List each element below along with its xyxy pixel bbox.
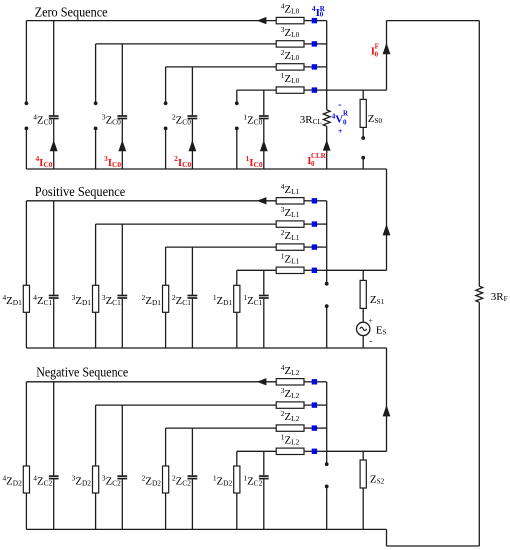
- terminal square 4ZL1: [312, 198, 317, 203]
- resistor 3ZL1: [276, 205, 304, 228]
- switch open contact dots junction seq1: [325, 282, 329, 308]
- wire negative bus to bottom: [386, 529, 388, 546]
- wire row 1ZL2 resistor-to-square: [304, 450, 312, 452]
- arrow capacitor current 4IC0: [50, 140, 58, 151]
- wire row 3ZL2 resistor-to-square: [304, 404, 312, 406]
- resistor 3ZL2: [276, 386, 304, 409]
- wire row 2ZL2 y=428.1: [166, 427, 277, 429]
- wire row 1ZL2 square-to-junction: [317, 450, 327, 452]
- wire row 3ZL0 square-to-junction: [317, 43, 327, 45]
- wire row 1ZL1 resistor-to-square: [304, 269, 312, 271]
- wire junction vertical lower seq2: [326, 486, 328, 529]
- resistor 1ZL0: [276, 71, 304, 94]
- wire cap leg 4ZC0 lower: [53, 119, 55, 169]
- wire resistor leg 1ZD1 lower: [236, 312, 238, 348]
- wire cap leg 4ZC2 upper: [53, 382, 55, 476]
- terminal square 3ZL1: [312, 221, 317, 226]
- wire row 3ZL2 square-to-junction: [317, 404, 327, 406]
- resistor 1ZL2: [276, 432, 304, 455]
- wire ZS1 upper: [362, 270, 364, 280]
- capacitor 3ZC0: [102, 112, 127, 127]
- terminal square 2ZL1: [312, 244, 317, 249]
- arrow current direction into row1 seq2: [257, 378, 267, 385]
- resistor 2ZD1: [142, 285, 169, 312]
- resistor 4ZD1: [2, 285, 29, 312]
- svg-text:Zero Sequence: Zero Sequence: [35, 5, 108, 20]
- wire row 4ZL1 resistor-to-square: [304, 200, 312, 202]
- capacitor 3ZC1: [102, 293, 127, 308]
- wire row4 extension to fault line seq1: [327, 269, 387, 271]
- wire row 1ZL0 y=90.1: [237, 89, 276, 91]
- wire row 1ZL2 y=451.3: [237, 450, 276, 452]
- resistor 3ZD1: [72, 285, 99, 312]
- wire bottom bus seq2: [26, 528, 386, 530]
- wire row 3ZL1 y=224.1: [96, 223, 277, 225]
- wire switch leg 1 lower seq0: [236, 128, 238, 169]
- svg-text:Negative Sequence: Negative Sequence: [36, 365, 128, 380]
- wire cap leg 2ZC2 lower: [191, 479, 193, 529]
- wire ZS1 to source: [362, 308, 364, 322]
- switch open contact dots junction seq2: [325, 462, 329, 488]
- arrow current direction into row1 seq1: [257, 197, 267, 204]
- terminal square 1ZL0: [312, 87, 317, 92]
- resistor 4ZL1: [276, 181, 304, 204]
- wire resistor leg 1ZD1 upper: [236, 270, 238, 285]
- wire row 2ZL1 resistor-to-square: [304, 246, 312, 248]
- wire junction vertical lower seq0: [326, 126, 328, 169]
- switch open contact dots ZS0 leg: [361, 136, 365, 160]
- wire ZS0 upper: [362, 90, 364, 99]
- wire resistor leg 3ZD1 lower: [95, 312, 97, 348]
- wire row 1ZL1 square-to-junction: [317, 269, 327, 271]
- arrow current I0CLR: [323, 140, 331, 151]
- wire cap leg 4ZC1 upper: [53, 201, 55, 295]
- svg-text:+: +: [368, 316, 372, 325]
- wire resistor leg 4ZD1 lower: [25, 312, 27, 348]
- resistor 1ZD2: [213, 466, 240, 493]
- wire row 4ZL0 y=20.6: [26, 20, 276, 22]
- terminal square 3ZL2: [312, 402, 317, 407]
- impedance ZS1: [360, 280, 385, 308]
- resistor 2ZD2: [142, 466, 169, 493]
- terminal square 1ZL2: [312, 449, 317, 454]
- capacitor 2ZC0: [172, 112, 197, 127]
- wire bottom bus seq1: [26, 347, 386, 349]
- wire row4 extension to fault line seq0: [327, 89, 387, 91]
- terminal square 4ZL0: [312, 18, 317, 23]
- resistor 2ZL2: [276, 409, 304, 432]
- wire resistor leg 2ZD2 upper: [165, 428, 167, 466]
- arrow capacitor current 1IC0: [260, 140, 268, 151]
- svg-text:IF0: IF0: [371, 43, 379, 59]
- wire switch leg 4 lower seq0: [25, 128, 27, 169]
- wire row 3ZL2 y=405.1: [96, 404, 277, 406]
- arrow fault current seq2: [383, 405, 391, 416]
- capacitor 2ZC2: [172, 473, 197, 488]
- wire right edge upper: [478, 21, 480, 287]
- wire fault vertical seq1: [386, 169, 388, 270]
- wire row 2ZL2 square-to-junction: [317, 427, 327, 429]
- label voltage 4V0R: [332, 99, 349, 136]
- resistor 3RCL: [300, 110, 330, 126]
- wire cap leg 1ZC0 lower: [263, 119, 265, 169]
- wire cap leg 1ZC1 upper: [263, 270, 265, 294]
- wire ZS2 to bus: [362, 488, 364, 529]
- wire cap leg 3ZC0 upper: [121, 44, 123, 115]
- wire cap leg 1ZC1 lower: [263, 299, 265, 348]
- wire switch leg 3 lower seq0: [95, 128, 97, 169]
- switch open contact dots 4 seq0: [25, 101, 29, 130]
- resistor 1ZL1: [276, 251, 304, 274]
- wire ZS2 upper: [362, 451, 364, 460]
- wire row 1ZL0 square-to-junction: [317, 89, 327, 91]
- wire bottom horizontal: [387, 545, 480, 547]
- wire cap leg 3ZC0 lower: [121, 119, 123, 169]
- wire bottom bus seq0: [26, 168, 386, 170]
- resistor 3RF: [476, 286, 508, 303]
- wire ZS0 switch to bus: [362, 158, 364, 169]
- switch open contact dots 2 seq0: [164, 101, 168, 130]
- wire cap leg 3ZC1 lower: [121, 299, 123, 348]
- wire ZS0 to switch: [362, 127, 364, 138]
- wire row 2ZL1 square-to-junction: [317, 246, 327, 248]
- wire switch leg 3 upper seq0: [95, 44, 97, 103]
- wire row 4ZL2 square-to-junction: [317, 381, 327, 383]
- wire cap leg 3ZC2 lower: [121, 479, 123, 529]
- arrow fault current seq1: [383, 224, 391, 235]
- arrow capacitor current 2IC0: [189, 140, 197, 151]
- wire row 2ZL1 y=247.1: [166, 246, 277, 248]
- svg-text:+: +: [338, 127, 343, 136]
- svg-text:-: -: [369, 336, 372, 346]
- wire row 3ZL0 y=43.9: [96, 43, 277, 45]
- impedance ZS2: [360, 460, 385, 488]
- wire cap leg 2ZC0 lower: [191, 119, 193, 169]
- wire right edge lower: [478, 302, 480, 546]
- wire row 2ZL2 resistor-to-square: [304, 427, 312, 429]
- wire row 4ZL2 y=381.8: [26, 381, 276, 383]
- terminal square 3ZL0: [312, 41, 317, 46]
- wire switch leg 4 upper seq0: [25, 21, 27, 104]
- capacitor 4ZC1: [33, 293, 58, 308]
- terminal square 2ZL2: [312, 425, 317, 430]
- wire cap leg 1ZC0 upper: [263, 90, 265, 115]
- wire row 1ZL1 y=270.3: [237, 269, 276, 271]
- wire cap leg 2ZC1 upper: [191, 247, 193, 295]
- wire junction vertical upper seq2: [326, 382, 328, 464]
- svg-text:-: -: [338, 99, 341, 110]
- resistor 2ZL1: [276, 228, 304, 251]
- terminal square 2ZL0: [312, 64, 317, 69]
- wire cap leg 1ZC2 upper: [263, 451, 265, 475]
- resistor 4ZD2: [2, 466, 29, 493]
- capacitor 1ZC2: [243, 473, 268, 488]
- wire row 2ZL0 square-to-junction: [317, 66, 327, 68]
- wire row 4ZL1 y=200.8: [26, 200, 276, 202]
- capacitor 1ZC1: [243, 293, 268, 308]
- wire resistor leg 3ZD2 upper: [95, 405, 97, 466]
- wire resistor leg 2ZD2 lower: [165, 493, 167, 529]
- resistor 3ZD2: [72, 466, 99, 493]
- capacitor 4ZC0: [33, 112, 58, 127]
- wire cap leg 4ZC0 upper: [53, 21, 55, 116]
- switch open contact dots 1 seq0: [235, 101, 239, 130]
- wire junction vertical lower seq1: [326, 306, 328, 348]
- wire junction vertical upper seq1: [326, 201, 328, 284]
- wire source to bus: [362, 336, 364, 348]
- svg-text:Positive Sequence: Positive Sequence: [35, 184, 126, 199]
- wire row 2ZL0 y=66.9: [166, 66, 277, 68]
- wire row 2ZL0 resistor-to-square: [304, 66, 312, 68]
- source ES: [357, 316, 387, 346]
- wire fault vertical seq0: [386, 21, 388, 91]
- wire top right horizontal: [387, 20, 480, 22]
- wire cap leg 2ZC2 upper: [191, 428, 193, 475]
- impedance ZS0: [360, 99, 382, 127]
- wire resistor leg 3ZD2 lower: [95, 493, 97, 529]
- wire row 3ZL0 resistor-to-square: [304, 43, 312, 45]
- wire resistor leg 4ZD2 lower: [25, 493, 27, 529]
- wire row4 extension to fault line seq2: [327, 450, 387, 452]
- wire cap leg 4ZC1 lower: [53, 299, 55, 348]
- wire row 3ZL1 square-to-junction: [317, 223, 327, 225]
- resistor 3ZL0: [276, 25, 304, 48]
- wire resistor leg 1ZD2 upper: [236, 451, 238, 466]
- wire row 1ZL0 resistor-to-square: [304, 89, 312, 91]
- wire resistor leg 4ZD2 upper: [25, 382, 27, 466]
- wire switch leg 2 lower seq0: [165, 128, 167, 169]
- resistor 4ZL2: [276, 362, 304, 385]
- resistor 4ZL0: [276, 1, 304, 24]
- wire resistor leg 2ZD1 upper: [165, 247, 167, 285]
- wire cap leg 3ZC1 upper: [121, 224, 123, 295]
- wire cap leg 4ZC2 lower: [53, 479, 55, 529]
- switch open contact dots 3 seq0: [94, 101, 98, 130]
- wire resistor leg 3ZD1 upper: [95, 224, 97, 285]
- capacitor 2ZC1: [172, 293, 197, 308]
- wire row 4ZL1 square-to-junction: [317, 200, 327, 202]
- terminal square 1ZL1: [312, 268, 317, 273]
- wire fault vertical seq2: [386, 348, 388, 451]
- wire switch leg 1 upper seq0: [236, 90, 238, 103]
- wire cap leg 2ZC0 upper: [191, 67, 193, 115]
- wire row 4ZL2 resistor-to-square: [304, 381, 312, 383]
- wire switch leg 2 upper seq0: [165, 67, 167, 103]
- arrow current direction into row1 seq0: [257, 17, 267, 24]
- arrow fault current I0F: [383, 43, 391, 54]
- terminal square 4ZL2: [312, 379, 317, 384]
- wire cap leg 1ZC2 lower: [263, 479, 265, 529]
- wire resistor leg 4ZD1 upper: [25, 201, 27, 285]
- wire row 4ZL0 square-to-junction: [317, 20, 327, 22]
- wire cap leg 2ZC1 lower: [191, 299, 193, 348]
- arrow capacitor current 3IC0: [118, 140, 126, 151]
- wire cap leg 3ZC2 upper: [121, 405, 123, 475]
- resistor 1ZD1: [213, 285, 240, 312]
- wire resistor leg 1ZD2 lower: [236, 493, 238, 529]
- wire resistor leg 2ZD1 lower: [165, 312, 167, 348]
- capacitor 3ZC2: [102, 473, 127, 488]
- capacitor 4ZC2: [33, 473, 58, 488]
- wire row 3ZL1 resistor-to-square: [304, 223, 312, 225]
- wire junction vertical upper seq0: [326, 21, 328, 110]
- resistor 2ZL0: [276, 48, 304, 71]
- wire row 4ZL0 resistor-to-square: [304, 20, 312, 22]
- capacitor 1ZC0: [243, 112, 268, 127]
